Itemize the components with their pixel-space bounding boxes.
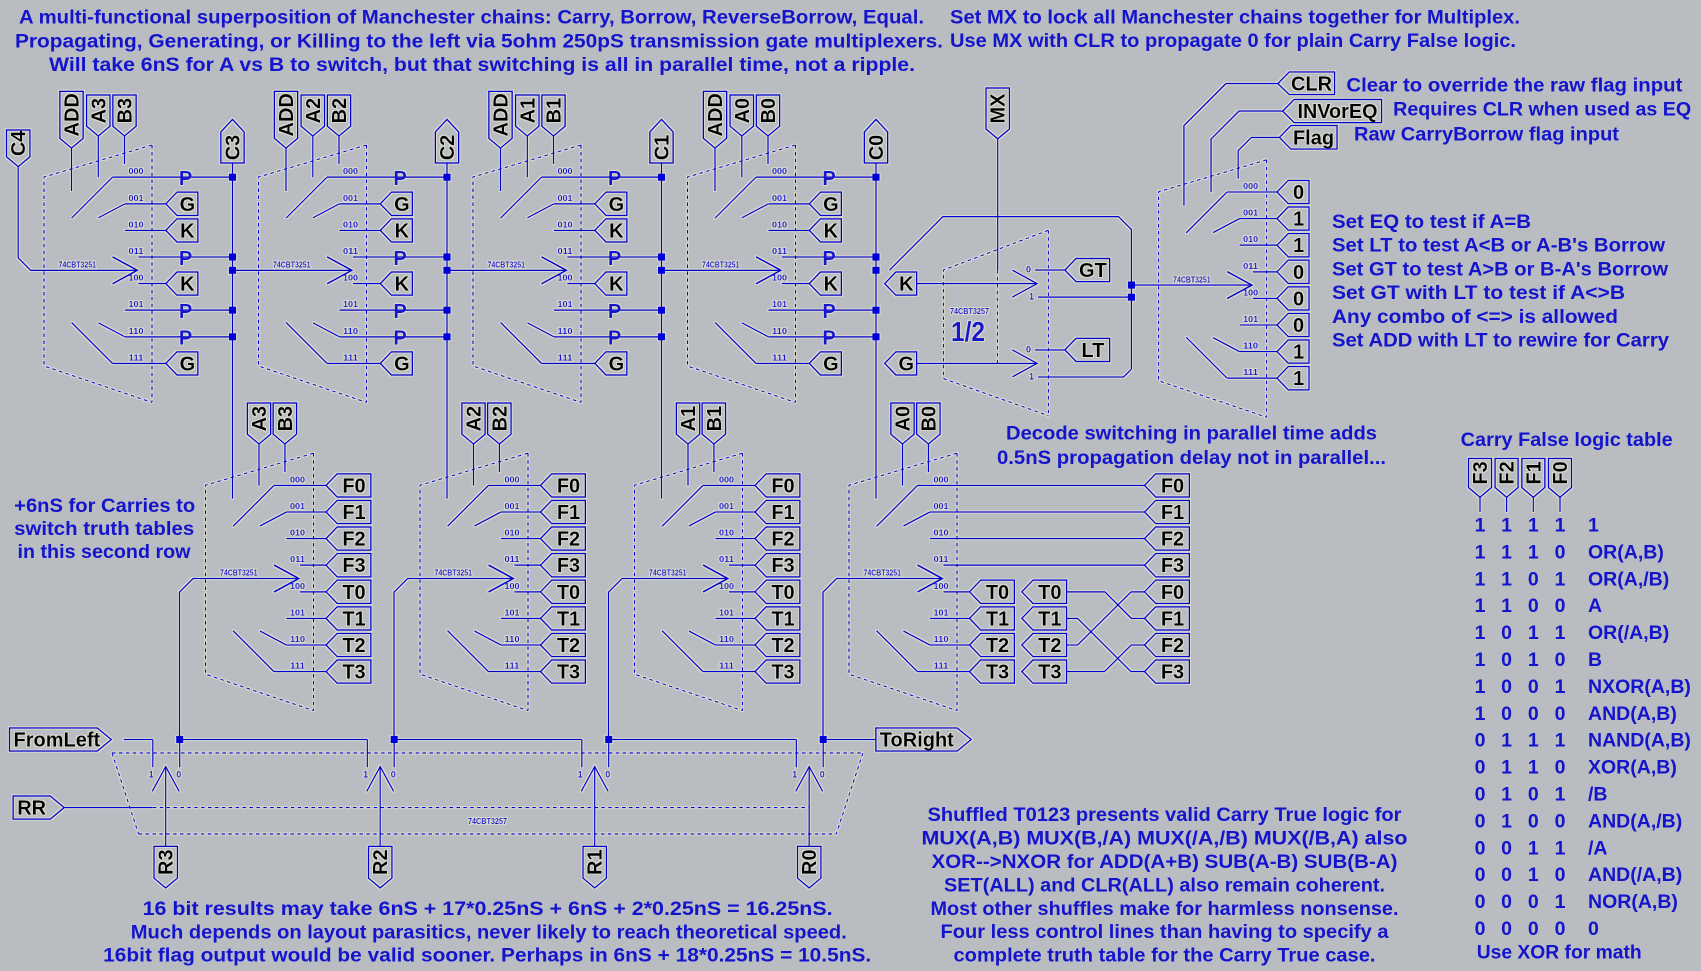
tag T0 (stage 2) [541, 580, 586, 603]
wire row 010 to K tag [768, 229, 809, 231]
svg-text:100: 100 [505, 582, 521, 591]
svg-text:101: 101 [129, 300, 145, 309]
svg-text:OR(A,B): OR(A,B) [1588, 541, 1664, 563]
svg-text:0: 0 [1501, 918, 1512, 940]
svg-text:0: 0 [1475, 864, 1486, 886]
mux U5 74CBT3251 (function stage 3) dashed mux outline [206, 453, 314, 710]
wire row 010 to F2 tag [286, 538, 326, 540]
mux U4 74CBT3251 (carry stage 0) switch arm row 110 [742, 323, 769, 337]
svg-text:1: 1 [1555, 837, 1566, 859]
junction loop to flag decoder line [1128, 282, 1135, 289]
svg-text:0: 0 [1475, 784, 1486, 806]
tag T3 (stage 2) [541, 660, 586, 683]
svg-text:111: 111 [719, 662, 735, 671]
svg-text:P: P [822, 168, 835, 190]
svg-text:T2: T2 [1038, 635, 1061, 657]
svg-text:Carry False logic table: Carry False logic table [1461, 429, 1673, 451]
wire U11 input 0 stub (R0) [822, 740, 824, 768]
svg-text:Set GT to test A>B or B-A's Bo: Set GT to test A>B or B-A's Borrow [1332, 258, 1669, 280]
wire row 011 (P) to bus [567, 256, 661, 258]
svg-text:1: 1 [1528, 730, 1539, 752]
svg-text:G: G [609, 194, 625, 216]
mux U7 74CBT3251 (function stage 1) switch arm row 110 [689, 631, 716, 645]
junction on C2 bus at output line [443, 267, 450, 274]
svg-text:1: 1 [1293, 235, 1304, 257]
svg-text:T3: T3 [342, 662, 365, 684]
svg-text:0: 0 [1555, 703, 1566, 725]
junction result bus R0 [820, 736, 827, 743]
svg-text:F0: F0 [1161, 475, 1184, 497]
wire ADD select [500, 148, 502, 191]
mux U8 74CBT3251 (function stage 0) output arrowhead [918, 565, 943, 592]
svg-text:R1: R1 [585, 849, 607, 875]
svg-text:1: 1 [1555, 515, 1566, 537]
mux U1 74CBT3251 (carry stage 3) switch arm row 000 [72, 177, 113, 218]
tag F3 (stage 1) [755, 554, 800, 577]
svg-text:110: 110 [129, 327, 145, 336]
svg-text:G: G [180, 194, 196, 216]
svg-text:P: P [179, 168, 192, 190]
wire ADD select [285, 148, 287, 191]
wire C2 bus vertical [446, 163, 448, 499]
tag ADD (stage 0) [703, 91, 726, 148]
wire R2 output [379, 767, 381, 847]
tag K net label (flag to comparator) [885, 272, 917, 295]
junction on C1 bus row 011 [658, 253, 665, 260]
junction on C3 bus row 000 [229, 174, 236, 181]
svg-text:A: A [1588, 595, 1602, 617]
tag T2 (stage 3) [326, 633, 371, 656]
svg-text:+6nS for Carries to: +6nS for Carries to [14, 495, 195, 517]
svg-text:0: 0 [1528, 676, 1539, 698]
svg-text:Use MX with CLR to propagate 0: Use MX with CLR to propagate 0 for plain… [950, 30, 1516, 52]
svg-text:100: 100 [343, 274, 359, 283]
svg-text:T2: T2 [771, 635, 794, 657]
svg-text:B1: B1 [544, 98, 566, 124]
wire carry chain C3 segment [233, 269, 352, 271]
wire A2 select (second row) [473, 444, 475, 486]
svg-text:K: K [395, 274, 410, 296]
tag ADD (stage 1) [489, 91, 512, 148]
svg-text:A0: A0 [732, 98, 754, 124]
wire row 110 to constant 1 [1240, 351, 1278, 353]
wire row 101 to T1 tag [715, 617, 755, 619]
svg-text:110: 110 [558, 327, 574, 336]
svg-text:1: 1 [1475, 515, 1486, 537]
svg-text:Much depends on layout parasit: Much depends on layout parasitics, never… [131, 921, 847, 943]
wire ADD select [714, 148, 716, 191]
tag F0 (logic table header) [1549, 458, 1572, 497]
wire C4 to mux U1 common [18, 167, 137, 271]
svg-text:010: 010 [558, 220, 574, 229]
mux U4 74CBT3251 (carry stage 0) dashed mux outline [688, 145, 796, 402]
svg-text:1: 1 [363, 770, 368, 780]
svg-text:G: G [180, 353, 196, 375]
svg-text:16bit flag output would be val: 16bit flag output would be valid sooner.… [103, 945, 871, 967]
wire U9 B input 0 to LT [1035, 349, 1065, 351]
svg-text:A1: A1 [517, 98, 539, 124]
svg-text:0: 0 [1293, 262, 1304, 284]
svg-text:74CBT3251: 74CBT3251 [220, 569, 258, 578]
svg-text:G: G [394, 353, 410, 375]
svg-text:100: 100 [934, 582, 950, 591]
tag K (row 100) [166, 272, 198, 295]
svg-text:0: 0 [1026, 265, 1031, 275]
svg-text:0: 0 [1528, 784, 1539, 806]
svg-text:R2: R2 [370, 849, 392, 875]
tag F0 (shuffle output) [1145, 580, 1190, 603]
tag R2 [369, 846, 392, 888]
svg-text:110: 110 [505, 635, 521, 644]
junction on C3 bus row 101 [229, 307, 236, 314]
svg-text:F1: F1 [342, 502, 365, 524]
mux U10 74CBT3251 (flag decoder) switch arm row 001 [1213, 219, 1240, 233]
svg-text:Set MX to lock all Manchester: Set MX to lock all Manchester chains tog… [950, 6, 1520, 28]
wire shuffle T0 to F1 [1067, 592, 1145, 619]
svg-text:011: 011 [772, 247, 788, 256]
mux U11 arrowhead (R3) [152, 767, 179, 792]
svg-text:Set EQ to test if A=B: Set EQ to test if A=B [1332, 211, 1531, 233]
junction on C0 bus row 101 [872, 307, 879, 314]
tag R1 [583, 846, 606, 888]
tag F2 (stage 3) [326, 527, 371, 550]
svg-text:Set GT with LT to test if A<>B: Set GT with LT to test if A<>B [1332, 282, 1625, 304]
mux U11 arrowhead (R1) [581, 767, 608, 792]
svg-text:1: 1 [1555, 568, 1566, 590]
svg-text:001: 001 [558, 194, 574, 203]
svg-text:111: 111 [129, 353, 145, 362]
mux U2 74CBT3251 (carry stage 2) switch arm row 000 [286, 177, 327, 218]
wire row 100 to T0 tag [943, 591, 969, 593]
svg-text:Flag: Flag [1293, 127, 1334, 149]
mux U3 74CBT3251 (carry stage 1) switch arm row 110 [527, 323, 554, 337]
wire shuffle T3 to F2 [1067, 645, 1145, 672]
svg-text:111: 111 [558, 353, 574, 362]
mux U1 74CBT3251 (carry stage 3) dashed mux outline [44, 145, 152, 402]
tag F2 (logic table header) [1495, 458, 1518, 497]
svg-text:A3: A3 [88, 98, 110, 124]
svg-text:1: 1 [1029, 292, 1034, 302]
tag G (row 111) [595, 352, 627, 375]
tag ToRight [876, 728, 971, 751]
svg-text:011: 011 [934, 555, 950, 564]
wire B2 select (second row) [498, 444, 500, 472]
svg-text:000: 000 [290, 475, 306, 484]
svg-text:110: 110 [1243, 342, 1259, 351]
wire RR select [64, 807, 153, 809]
mux U1 74CBT3251 (carry stage 3) switch arm row 110 [98, 323, 125, 337]
mux U1 74CBT3251 (carry stage 3) switch arm row 111 [72, 322, 113, 363]
wire row 001 to F1 tag [715, 511, 755, 513]
svg-text:XOR-->NXOR for ADD(A+B) SUB(A-: XOR-->NXOR for ADD(A+B) SUB(A-B) SUB(B-A… [932, 851, 1398, 873]
svg-text:1: 1 [1293, 342, 1304, 364]
wire row 011 (P) to bus [353, 256, 447, 258]
svg-text:1: 1 [1528, 757, 1539, 779]
tag R0 [798, 846, 821, 888]
wire A2 select [312, 136, 314, 177]
wire row 010 to K tag [339, 229, 380, 231]
tag K (row 010) [166, 219, 198, 242]
svg-text:B3: B3 [115, 98, 137, 124]
mux U6 74CBT3251 (function stage 2) dashed mux outline [420, 453, 528, 710]
tag K (row 010) [380, 219, 412, 242]
wire F1 table stub [1532, 497, 1534, 512]
svg-text:1: 1 [1555, 784, 1566, 806]
tag B1 (second row) [702, 403, 725, 444]
svg-text:F0: F0 [342, 475, 365, 497]
tag F3 (stage 3) [326, 554, 371, 577]
wire MX select [997, 139, 999, 270]
svg-text:0: 0 [1528, 703, 1539, 725]
wire row 100 to K tag [567, 283, 595, 285]
svg-text:T3: T3 [557, 662, 580, 684]
tag K (row 100) [595, 272, 627, 295]
mux U5 74CBT3251 (function stage 3) output arrowhead [274, 565, 299, 592]
wire K to U9 section A common [917, 283, 1037, 285]
wire result bus segment 0 [124, 739, 153, 741]
svg-text:011: 011 [719, 555, 735, 564]
svg-text:P: P [822, 328, 835, 350]
svg-text:1: 1 [1555, 676, 1566, 698]
svg-text:F2: F2 [557, 529, 580, 551]
svg-text:100: 100 [129, 274, 145, 283]
svg-text:010: 010 [129, 220, 145, 229]
svg-text:111: 111 [772, 353, 788, 362]
wire row 011 (P) to bus [138, 256, 232, 258]
tag G (row 111) [166, 352, 198, 375]
wire R1 output [594, 767, 596, 847]
svg-text:ADD: ADD [705, 93, 727, 136]
svg-text:F2: F2 [342, 529, 365, 551]
svg-text:0: 0 [1588, 918, 1599, 940]
svg-text:101: 101 [934, 608, 950, 617]
wire comparator chain to U10 common [1131, 284, 1252, 286]
svg-text:P: P [393, 168, 406, 190]
mux U7 74CBT3251 (function stage 1) dashed mux outline [635, 453, 743, 710]
svg-text:1: 1 [149, 770, 154, 780]
svg-text:P: P [179, 301, 192, 323]
svg-text:000: 000 [719, 475, 735, 484]
tag constant 1 (row 010) [1277, 234, 1309, 257]
svg-text:Use XOR for math: Use XOR for math [1477, 942, 1642, 964]
svg-text:74CBT3251: 74CBT3251 [488, 261, 526, 270]
wire C3 bus vertical [232, 163, 234, 499]
mux U5 74CBT3251 (function stage 3) switch arm row 110 [260, 631, 287, 645]
svg-text:C0: C0 [866, 135, 888, 161]
svg-text:011: 011 [290, 555, 306, 564]
tag constant 1 (row 111) [1277, 367, 1309, 390]
svg-text:NAND(A,B): NAND(A,B) [1588, 730, 1691, 752]
wire B0 select [767, 136, 769, 164]
svg-text:0: 0 [1501, 676, 1512, 698]
svg-text:011: 011 [505, 555, 521, 564]
tag B1 [542, 95, 565, 136]
svg-text:AND(A,/B): AND(A,/B) [1588, 810, 1682, 832]
tag constant 0 (row 011) [1277, 260, 1309, 283]
tag G (row 001) [380, 192, 412, 215]
svg-text:P: P [179, 248, 192, 270]
tag F1 (logic table header) [1522, 458, 1545, 497]
svg-text:0: 0 [1475, 810, 1486, 832]
mux U9 section A arrowhead [1012, 270, 1037, 297]
tag FromLeft [10, 728, 112, 751]
svg-text:1: 1 [1475, 541, 1486, 563]
svg-text:1: 1 [1555, 730, 1566, 752]
wire shuffle T1 to F3 [1067, 618, 1145, 671]
svg-text:1: 1 [1501, 515, 1512, 537]
mux U5 74CBT3251 (function stage 3) switch arm row 111 [233, 631, 274, 672]
tag B2 [327, 95, 350, 136]
tag G (row 001) [166, 192, 198, 215]
wire A1 select [526, 136, 528, 177]
mux U7 74CBT3251 (function stage 1) output arrowhead [703, 565, 728, 592]
tag A2 (second row) [462, 403, 485, 444]
svg-text:F0: F0 [557, 475, 580, 497]
wire INVorEQ select [1211, 111, 1283, 192]
svg-text:0: 0 [1501, 649, 1512, 671]
svg-text:T1: T1 [986, 608, 1009, 630]
wire row 110 (P) to bus [125, 336, 233, 338]
svg-text:P: P [393, 328, 406, 350]
wire row 100 to T0 tag [300, 591, 326, 593]
tag T2 (stage 2) [541, 633, 586, 656]
svg-text:1: 1 [1501, 784, 1512, 806]
svg-text:B0: B0 [758, 98, 780, 124]
wire row 001 to G tag [339, 203, 380, 205]
wire R0 from function mux to result mux [823, 579, 942, 740]
svg-text:011: 011 [343, 247, 359, 256]
tag C4 net label [7, 130, 30, 167]
svg-text:0: 0 [605, 770, 610, 780]
wire B2 select [338, 136, 340, 164]
svg-text:B0: B0 [918, 406, 940, 432]
svg-text:P: P [393, 248, 406, 270]
svg-text:0: 0 [1501, 703, 1512, 725]
svg-text:74CBT3257: 74CBT3257 [468, 817, 507, 826]
svg-text:G: G [899, 353, 915, 375]
wire row 111 to T3 tag [703, 671, 755, 673]
tag T2 (stage 0) [970, 633, 1015, 656]
tag F0 (stage 2) [541, 474, 586, 497]
mux U9 74CBT3257 dashed outline (1/2) [943, 230, 1048, 415]
wire A3 select (second row) [258, 444, 260, 486]
wire row 111 to constant 1 [1227, 377, 1277, 379]
svg-text:0: 0 [1555, 918, 1566, 940]
wire row 001 to constant 1 [1240, 218, 1278, 220]
svg-text:B1: B1 [704, 406, 726, 432]
svg-text:0: 0 [1555, 864, 1566, 886]
svg-text:010: 010 [290, 529, 306, 538]
tag RR [13, 796, 64, 819]
tag A3 [87, 95, 110, 136]
wire B0 select (second row) [927, 444, 929, 472]
mux U3 74CBT3251 (carry stage 1) dashed mux outline [473, 145, 581, 402]
tag T0 (stage 3) [326, 580, 371, 603]
wire row 110 to T2 tag [715, 644, 755, 646]
wire row 001 to G tag [554, 203, 595, 205]
wire row 011 to F3 tag [729, 564, 755, 566]
wire row 101 to T1 tag [286, 617, 326, 619]
wire row 000 (P) to bus [756, 176, 876, 178]
tag G net label (flag to comparator) [885, 352, 917, 375]
junction on C2 bus row 000 [443, 174, 450, 181]
wire B1 select [553, 136, 555, 164]
wire shuffle T2 to F0 [1067, 592, 1145, 645]
svg-text:Any combo of <=> is allowed: Any combo of <=> is allowed [1332, 306, 1618, 328]
wire B1 select (second row) [713, 444, 715, 472]
wire row 100 to K tag [138, 283, 166, 285]
wire F2 table stub [1506, 497, 1508, 512]
svg-text:74CBT3251: 74CBT3251 [59, 261, 97, 270]
mux U3 74CBT3251 (carry stage 1) output arrowhead [542, 257, 567, 284]
tag F1 (shuffle output) [1145, 607, 1190, 630]
svg-text:F3: F3 [771, 555, 794, 577]
tag A0 (second row) [891, 403, 914, 444]
svg-text:in this second row: in this second row [18, 541, 192, 563]
junction result bus R2 [391, 736, 398, 743]
svg-text:0: 0 [1528, 810, 1539, 832]
svg-text:RR: RR [17, 798, 46, 820]
svg-text:1: 1 [792, 770, 797, 780]
svg-text:B: B [1588, 649, 1602, 671]
svg-text:R0: R0 [799, 849, 821, 875]
svg-text:T1: T1 [342, 608, 365, 630]
tag B3 (second row) [273, 403, 296, 444]
svg-text:1: 1 [1293, 209, 1304, 231]
svg-text:K: K [609, 274, 624, 296]
svg-text:A3: A3 [249, 406, 271, 432]
svg-text:74CBT3251: 74CBT3251 [864, 569, 902, 578]
svg-text:T0: T0 [342, 582, 365, 604]
mux U11 arrowhead (R2) [367, 767, 394, 792]
svg-text:switch truth tables: switch truth tables [14, 518, 194, 540]
svg-text:A2: A2 [303, 98, 325, 124]
wire row 110 to T2 tag [286, 644, 326, 646]
wire row 000 to constant 0 [1227, 191, 1277, 193]
svg-text:111: 111 [505, 662, 521, 671]
tag F0 (stage 0) [1145, 474, 1190, 497]
svg-text:T1: T1 [771, 608, 794, 630]
svg-text:P: P [822, 301, 835, 323]
svg-text:1: 1 [1528, 622, 1539, 644]
wire row 111 to G tag [113, 362, 166, 364]
junction on C2 bus row 101 [443, 307, 450, 314]
svg-text:K: K [899, 274, 914, 296]
svg-text:NOR(A,B): NOR(A,B) [1588, 891, 1678, 913]
junction on C0 bus at output line [872, 267, 879, 274]
tag F0 (stage 3) [326, 474, 371, 497]
wire row 001 to F1 tag [501, 511, 541, 513]
wire row 101 (P) to bus [554, 309, 662, 311]
wire U11 input 0 stub (R1) [608, 740, 610, 768]
svg-text:110: 110 [719, 635, 735, 644]
svg-text:T0: T0 [1038, 582, 1061, 604]
wire row 000 (P) to bus [113, 176, 233, 178]
tag K (row 010) [595, 219, 627, 242]
wire row 000 to F0 tag [489, 484, 541, 486]
svg-text:1: 1 [1475, 703, 1486, 725]
wire row 110 (P) to bus [554, 336, 662, 338]
svg-text:011: 011 [129, 247, 145, 256]
tag A2 [301, 95, 324, 136]
tag T1 (stage 1) [755, 607, 800, 630]
wire row 010 to constant 1 [1240, 244, 1278, 246]
svg-text:T2: T2 [986, 635, 1009, 657]
svg-text:0: 0 [1475, 891, 1486, 913]
svg-text:0: 0 [1528, 595, 1539, 617]
junction on C0 bus row 110 [872, 333, 879, 340]
wire carry chain C1 segment [662, 269, 781, 271]
